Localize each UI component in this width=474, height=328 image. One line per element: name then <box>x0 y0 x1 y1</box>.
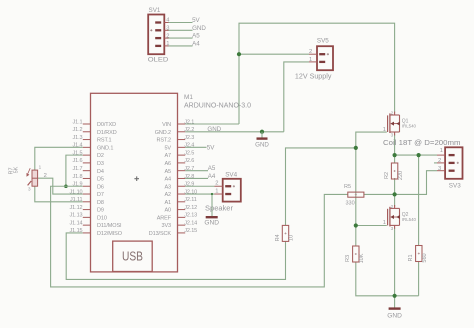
svg-text:GND.1: GND.1 <box>97 145 113 151</box>
svg-text:3: 3 <box>391 226 394 231</box>
svg-text:J2.5: J2.5 <box>184 150 194 156</box>
label R2 value 220 <box>398 171 404 180</box>
svg-text:GND: GND <box>192 25 206 32</box>
svg-text:SV3: SV3 <box>449 183 461 190</box>
svg-text:RST.1: RST.1 <box>97 138 112 144</box>
svg-text:OLED: OLED <box>148 56 169 63</box>
wire A5 stub at J2.7 <box>185 170 208 172</box>
resistor R1 <box>416 246 422 262</box>
label R4 value 10 <box>289 235 295 241</box>
svg-text:AREF: AREF <box>157 215 172 221</box>
wire 12V rail: VIN up and across to Q1 drain <box>239 23 395 124</box>
svg-text:2: 2 <box>44 173 47 179</box>
svg-text:RST.2: RST.2 <box>157 138 172 144</box>
svg-text:A5: A5 <box>164 169 171 175</box>
svg-text:SV1: SV1 <box>149 7 161 14</box>
svg-text:J1.10: J1.10 <box>70 189 83 195</box>
M1 left pin labels J1.x <box>70 119 83 234</box>
connector SV1 <box>148 15 168 55</box>
svg-text:D13/SCK: D13/SCK <box>149 231 172 237</box>
svg-text:D0/TXD: D0/TXD <box>97 122 116 128</box>
label SV4 value Speaker <box>205 203 234 212</box>
wire J1.4 (GND.1) to trimmer R7 pin 1 <box>35 147 83 170</box>
wire R5 right to drain node <box>364 193 395 195</box>
svg-text:5K: 5K <box>14 166 20 173</box>
svg-text:J2.1: J2.1 <box>184 119 194 125</box>
M1 left pin names <box>97 122 123 237</box>
ground symbol near SV5/Arduino GND <box>255 132 269 149</box>
svg-text:R1: R1 <box>408 254 414 261</box>
label SV3 name <box>449 183 461 190</box>
svg-text:1: 1 <box>383 127 386 133</box>
svg-text:GND: GND <box>204 220 219 227</box>
junction Q2 gate tap <box>354 223 358 227</box>
junction coil rail / Q1 source <box>393 153 397 157</box>
net label A4 at J2.8 <box>208 173 216 180</box>
Q2 pin numbers <box>383 204 394 231</box>
wire SV1 pin 2 net A5 <box>168 37 193 39</box>
svg-text:J2.6: J2.6 <box>184 158 194 164</box>
svg-text:SV4: SV4 <box>225 172 237 179</box>
svg-text:1: 1 <box>309 57 312 63</box>
transistor Q2 IRL540 <box>388 205 400 229</box>
wire coil rail down through R1 <box>395 155 419 296</box>
R7 pin numbers <box>28 165 47 192</box>
svg-text:D12/MISO: D12/MISO <box>97 231 123 237</box>
svg-text:J1.15: J1.15 <box>70 228 83 234</box>
wire VIN (J2.1) to 12V rail <box>185 123 239 125</box>
svg-text:1: 1 <box>440 148 443 154</box>
label SV4 name <box>225 172 237 179</box>
wire SV5 pin 1 down to GND net <box>284 62 309 132</box>
svg-text:J2.7: J2.7 <box>184 166 194 172</box>
wire Q1 source to coil rail <box>394 135 396 156</box>
svg-text:R2: R2 <box>384 172 390 179</box>
wire A4 stub at J2.8 <box>185 177 208 179</box>
SV1 net labels <box>192 17 206 47</box>
svg-text:D10: D10 <box>97 215 107 221</box>
svg-text:A4: A4 <box>164 177 171 183</box>
svg-text:J1.4: J1.4 <box>73 143 83 149</box>
SV4 pin numbers <box>215 181 218 195</box>
svg-text:GND: GND <box>207 126 221 133</box>
svg-text:A4: A4 <box>192 41 200 48</box>
junction gate node <box>354 146 358 150</box>
svg-text:10K: 10K <box>359 253 365 263</box>
module M1 USB box <box>113 241 153 271</box>
wire J1.5 (D2) down to D6 net <box>66 155 83 186</box>
wire GND from J2.2 <box>185 131 284 133</box>
trimmer R7 <box>27 168 38 186</box>
svg-text:2: 2 <box>166 33 169 39</box>
svg-text:J2.2: J2.2 <box>184 127 194 133</box>
label Q1 name/value <box>402 118 417 128</box>
svg-text:A6: A6 <box>164 161 171 167</box>
svg-text:1: 1 <box>215 188 218 194</box>
svg-text:D7: D7 <box>97 192 104 198</box>
svg-text:5V: 5V <box>207 145 215 152</box>
svg-text:1: 1 <box>166 41 169 47</box>
wire SV1 pin 3 net GND <box>168 29 193 31</box>
module M1 ARDUINO-NANO-3.0 body <box>83 93 185 272</box>
wire J1.15 (D12/MISO) down around to R4 bottom <box>66 233 285 279</box>
junction 12V rail / SV5 <box>237 52 241 56</box>
svg-text:A7: A7 <box>164 153 171 159</box>
wire SV3 pin 2 stub <box>434 162 437 164</box>
svg-text:D6: D6 <box>97 184 104 190</box>
label R1 value 560 <box>422 253 428 262</box>
svg-text:10: 10 <box>289 235 295 241</box>
svg-text:J1.1: J1.1 <box>73 119 83 125</box>
svg-text:R5: R5 <box>344 184 351 190</box>
label R3 value 10K <box>359 253 365 263</box>
label R4 name <box>275 234 281 241</box>
wire SV1 pin 4 net 5V <box>168 22 193 24</box>
wire ground node stem <box>394 296 396 308</box>
svg-text:12V Supply: 12V Supply <box>295 71 332 80</box>
svg-text:J2.11: J2.11 <box>184 197 197 203</box>
svg-text:A0: A0 <box>164 208 171 214</box>
svg-text:3: 3 <box>438 166 441 172</box>
svg-text:5V: 5V <box>192 17 200 24</box>
svg-text:GND: GND <box>387 313 402 320</box>
ground symbol bottom right <box>387 309 402 320</box>
M1 right pin names <box>149 122 172 237</box>
wire Q2 source to ground node <box>394 229 396 296</box>
wire to Q2 gate <box>356 225 387 227</box>
SV5 pin numbers <box>309 49 312 63</box>
wire gate node down to R3 top (crosses R5) <box>355 148 357 246</box>
svg-text:R4: R4 <box>275 234 281 241</box>
svg-text:220: 220 <box>398 171 404 180</box>
Q1 pin numbers <box>383 110 394 137</box>
svg-text:SV5: SV5 <box>317 38 329 45</box>
wire J1.9 (D6) down around to R5 left <box>51 186 348 287</box>
svg-text:3V3: 3V3 <box>162 223 172 229</box>
resistor R4 <box>282 225 288 241</box>
label R7 name <box>9 167 15 174</box>
wire gate node up to Q1 gate <box>356 132 387 148</box>
label R3 name <box>345 255 351 262</box>
svg-text:GND: GND <box>255 142 269 149</box>
wire SV1 pin 1 net A4 <box>168 45 193 47</box>
svg-text:J1.5: J1.5 <box>73 150 83 156</box>
wire trimmer R7 pin 3 to J1.11 <box>35 186 83 202</box>
svg-text:J1.14: J1.14 <box>70 220 83 226</box>
resistor R3 <box>353 246 359 262</box>
label R2 name <box>384 172 390 179</box>
svg-text:D11/MOSI: D11/MOSI <box>97 223 122 229</box>
svg-text:J2.13: J2.13 <box>184 213 197 219</box>
svg-text:D5: D5 <box>97 177 104 183</box>
label R5 name <box>344 184 351 190</box>
svg-text:IRL540: IRL540 <box>402 217 417 222</box>
resistor R2 <box>391 163 397 179</box>
svg-text:J2.14: J2.14 <box>184 220 197 226</box>
svg-text:USB: USB <box>122 250 143 264</box>
wire SV5 pin 2 to 12V rail <box>239 53 309 55</box>
label SV5 value 12V Supply <box>295 71 332 80</box>
svg-text:ARDUINO-NANO-3.0: ARDUINO-NANO-3.0 <box>184 101 251 110</box>
svg-text:2: 2 <box>391 204 394 209</box>
wire trimmer R7 wiper to J1.10 <box>38 178 83 194</box>
svg-text:J1.11: J1.11 <box>70 197 83 203</box>
svg-text:J1.8: J1.8 <box>73 174 83 180</box>
label Q2 name/value <box>402 212 417 222</box>
svg-text:D9: D9 <box>97 208 104 214</box>
svg-text:3: 3 <box>28 187 31 192</box>
svg-text:D8: D8 <box>97 200 104 206</box>
SV1 pin numbers <box>166 18 170 47</box>
svg-text:560: 560 <box>422 253 428 262</box>
svg-text:D3: D3 <box>97 161 104 167</box>
junction Q2 drain node <box>393 192 397 196</box>
junction ground node <box>393 294 397 298</box>
net label GND at J2.2 <box>207 126 221 133</box>
svg-text:J1.9: J1.9 <box>73 182 83 188</box>
svg-text:2: 2 <box>391 110 394 115</box>
svg-text:1: 1 <box>39 165 42 170</box>
svg-text:3: 3 <box>166 26 169 32</box>
net label A5 at J2.7 <box>208 165 216 172</box>
svg-text:A5: A5 <box>192 33 200 40</box>
svg-text:Speaker: Speaker <box>205 203 234 212</box>
svg-text:IRL540: IRL540 <box>402 123 417 128</box>
svg-text:5V: 5V <box>164 145 171 151</box>
svg-text:A3: A3 <box>164 184 171 190</box>
net label 5V at J2.4 <box>207 145 215 152</box>
svg-text:2: 2 <box>438 158 441 164</box>
svg-text:J1.6: J1.6 <box>73 158 83 164</box>
svg-text:D4: D4 <box>97 169 104 175</box>
svg-text:J2.12: J2.12 <box>184 205 197 211</box>
junction coil rail / R1 <box>417 153 421 157</box>
label M1 name <box>184 94 193 101</box>
label SV5 name <box>317 38 329 45</box>
net label Coil 18T @ D=200mm <box>383 138 461 147</box>
svg-text:R3: R3 <box>345 255 351 262</box>
wire R2 top / R2 bottom to Q2 drain <box>394 155 396 207</box>
svg-text:VIN: VIN <box>162 122 171 128</box>
ground symbol at speaker <box>204 217 219 226</box>
svg-text:1: 1 <box>383 220 386 226</box>
svg-text:330: 330 <box>346 200 355 206</box>
wire J2.9 to SV4 pin 2 <box>185 185 214 187</box>
wire R3 bottom to ground rail <box>356 262 395 296</box>
label M1 value ARDUINO-NANO-3.0 <box>184 101 251 110</box>
svg-text:A4: A4 <box>208 173 216 180</box>
svg-text:2: 2 <box>215 181 218 187</box>
junction speaker gnd tap <box>211 193 213 195</box>
svg-text:Coil 18T @ D=200mm: Coil 18T @ D=200mm <box>383 138 461 147</box>
svg-text:J2.4: J2.4 <box>184 143 194 149</box>
transistor Q1 IRL540 <box>388 112 400 136</box>
svg-text:J1.2: J1.2 <box>73 127 83 133</box>
connector SV5 <box>309 46 333 70</box>
svg-text:D2: D2 <box>97 153 104 159</box>
svg-text:J1.3: J1.3 <box>73 135 83 141</box>
wire R4 top to gate node <box>286 148 356 226</box>
svg-text:A2: A2 <box>164 192 171 198</box>
M1 right pin labels J2.x <box>184 119 197 234</box>
wire drain node to SV3 pin 3 <box>395 171 437 195</box>
svg-text:J2.3: J2.3 <box>184 135 194 141</box>
label R7 value 5K <box>14 166 20 173</box>
svg-text:J2.8: J2.8 <box>184 174 194 180</box>
junction GND net <box>260 130 264 134</box>
wire coil rail to SV3 pin 1 <box>395 154 437 156</box>
wire 5V stub at J2.4 <box>185 146 206 148</box>
svg-text:J2.9: J2.9 <box>184 182 194 188</box>
svg-text:A5: A5 <box>208 165 216 172</box>
svg-text:2: 2 <box>309 49 312 55</box>
connector SV4 <box>215 179 241 202</box>
svg-text:D1/RXD: D1/RXD <box>97 130 117 136</box>
svg-text:A1: A1 <box>164 200 171 206</box>
resistor R5 <box>348 192 364 197</box>
label R1 name <box>408 254 414 261</box>
svg-text:GND.2: GND.2 <box>155 130 171 136</box>
label SV1 name <box>149 7 161 14</box>
SV3 pin numbers <box>438 148 443 172</box>
wire J2.10 to SV4 pin 1 <box>185 193 214 195</box>
connector SV3 <box>437 147 463 179</box>
junction D2/D6 net <box>64 184 68 188</box>
svg-text:J2.10: J2.10 <box>184 189 197 195</box>
wire speaker ground drop <box>211 194 213 216</box>
label SV1 value OLED <box>148 56 169 63</box>
svg-text:J2.15: J2.15 <box>184 228 197 234</box>
svg-text:J1.13: J1.13 <box>70 213 83 219</box>
label R5 value 330 <box>346 200 355 206</box>
svg-text:J1.12: J1.12 <box>70 205 83 211</box>
svg-text:J1.7: J1.7 <box>73 166 83 172</box>
